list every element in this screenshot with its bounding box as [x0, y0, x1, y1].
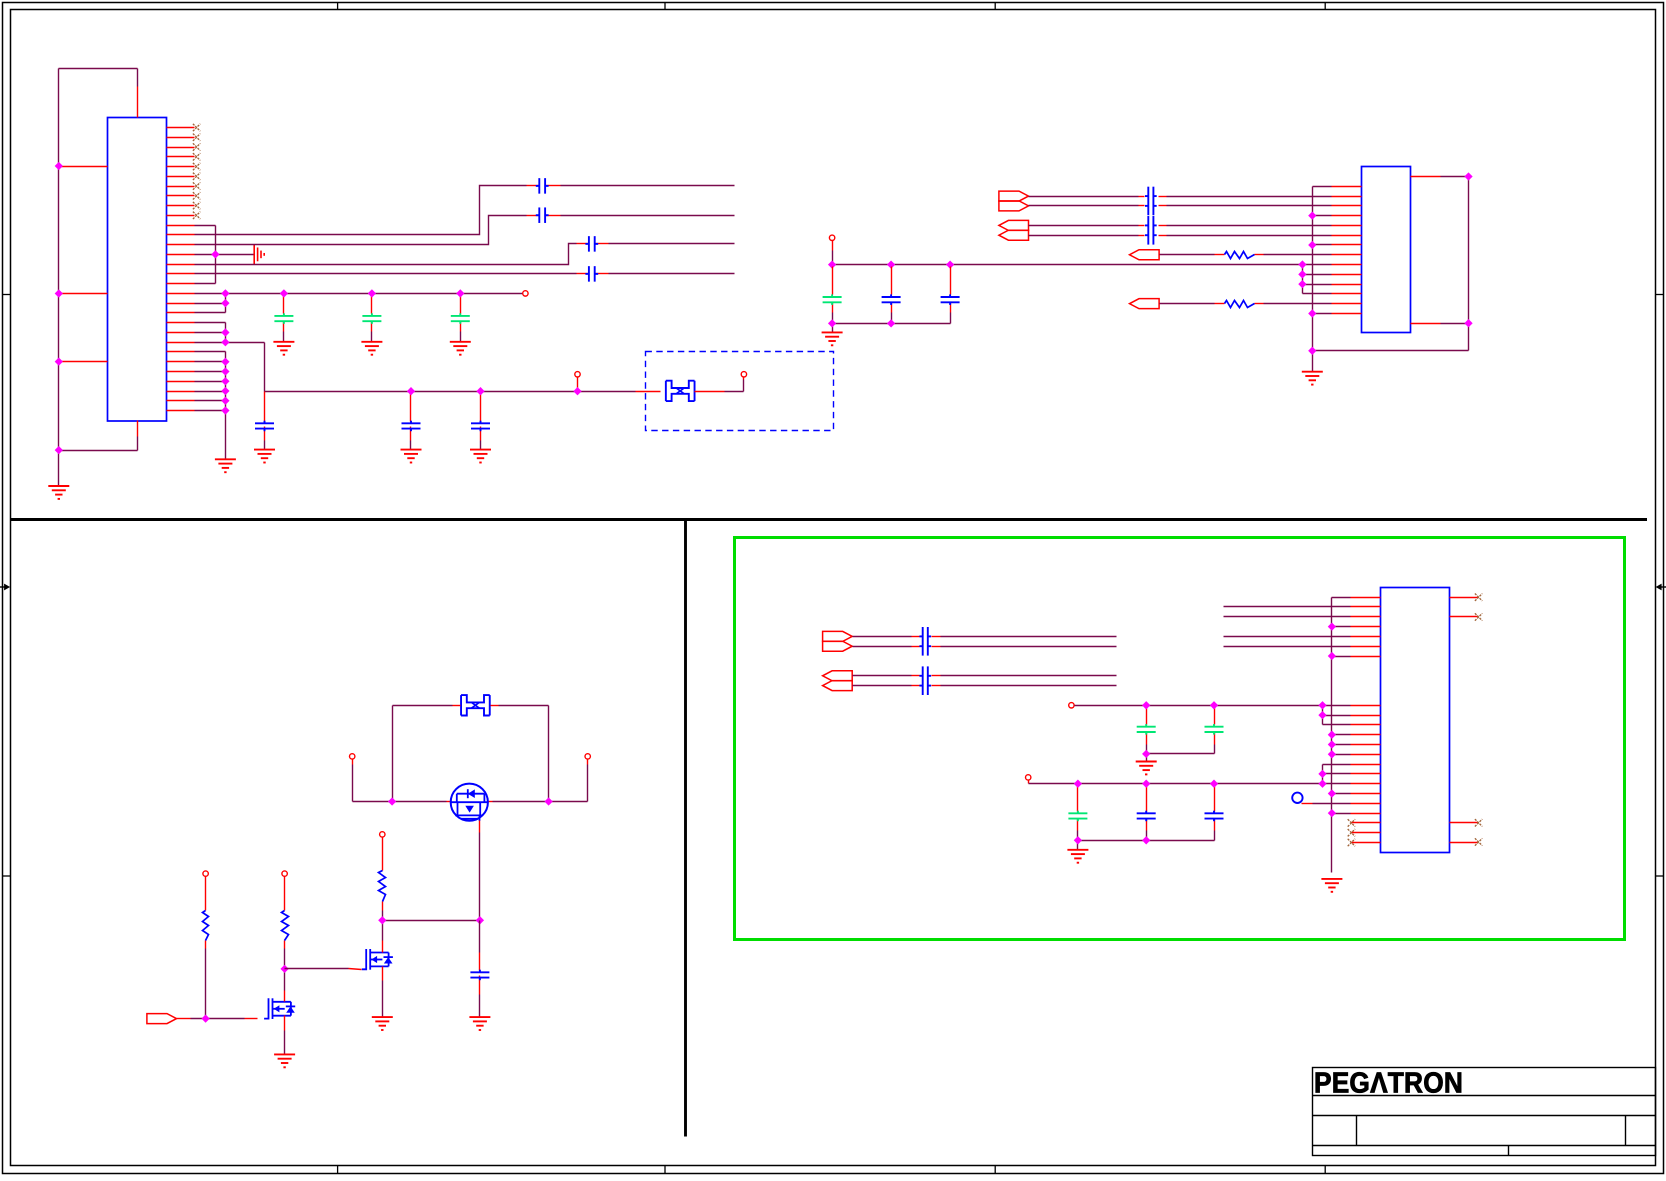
junction net2 tap C6 [476, 387, 484, 395]
capacitor pair C14/C15 [1145, 187, 1157, 216]
ground G-C1 [273, 342, 294, 355]
wire green box row [853, 675, 1117, 677]
wire cap C25 leads [1077, 784, 1079, 841]
option area box [735, 538, 1625, 940]
test point TP4 [829, 235, 834, 240]
junction U2 right bottom [1464, 319, 1472, 327]
ground C18 [469, 1017, 490, 1030]
junction U2 bus join [1308, 347, 1316, 355]
junction tie15 [1318, 770, 1326, 778]
transistor Q3 [264, 998, 295, 1019]
no-connect marker circle [1292, 793, 1302, 803]
test point TP3 [741, 372, 746, 377]
capacitor C6 [471, 421, 490, 432]
wire U3 feed [1224, 606, 1351, 608]
port P-R4 [1130, 250, 1160, 260]
junction loop right [544, 797, 552, 805]
wire U3 right stub [1450, 616, 1479, 618]
no-connect U1 pin 6 [193, 173, 200, 180]
resistor R3 [379, 871, 386, 902]
junction bus D pin28 [221, 387, 229, 395]
wire TP11 bottom rail [1078, 841, 1215, 850]
junction U2 gnd pin4 [1308, 211, 1316, 219]
wire net C (U1 pin 15) [195, 244, 735, 265]
no-connect U3 NC left [1348, 819, 1355, 826]
ground U3 bus [1321, 879, 1342, 892]
wire R2 leads [284, 877, 286, 969]
capacitor C5 [402, 421, 421, 432]
ground bus D [215, 459, 236, 472]
junction tap C24 [1210, 701, 1218, 709]
port PG3 [823, 671, 853, 681]
ground G-C6 [470, 450, 491, 463]
wire Q2 gate net [285, 969, 362, 970]
wire cap C27 leads [1214, 784, 1216, 841]
test point TP8 [282, 871, 287, 876]
no-connect U3 NC right [1475, 838, 1482, 845]
capacitor C4 [255, 421, 274, 432]
junction tie pin11 [1298, 280, 1306, 288]
junction U3 gnd tap [1328, 740, 1336, 748]
wire TP10 bottom rail [1147, 754, 1215, 762]
junction U3 gnd tap [1328, 622, 1336, 630]
wire U3 pins 8-10 tie [1323, 706, 1351, 725]
junction U3 gnd tap [1328, 731, 1336, 739]
junction bus B mid [221, 299, 229, 307]
wire U1 bottom feed [59, 421, 138, 451]
capacitor C10 [585, 266, 598, 282]
junction U3 gnd tap [1328, 789, 1336, 797]
wire Y1 right lead [695, 377, 744, 392]
test point TP6 [585, 754, 590, 759]
no-connect U1 pin 8 [193, 192, 200, 199]
ground Q2 source [372, 1017, 393, 1030]
wire TP2 stem [577, 377, 579, 392]
junction net1 tap C3 [456, 289, 464, 297]
resistor R4 [1225, 252, 1255, 259]
no-connect U3 NC left [1348, 839, 1355, 846]
transistor Q2 [362, 949, 393, 970]
no-connect U1 pin 3 [193, 143, 200, 150]
test point TP5 [350, 754, 355, 759]
wire R3 leads [382, 838, 384, 921]
junction bus B top [221, 289, 229, 297]
junction U3 gnd tap [1328, 652, 1336, 660]
wire U3 feed [1224, 616, 1351, 618]
svg-text:PEGΛTRON: PEGΛTRON [1314, 1067, 1463, 1099]
wire U2 row 2 [1029, 196, 1332, 198]
capacitor C13 [941, 294, 960, 305]
junction bus C mid [221, 328, 229, 336]
wire TP11 rail [1029, 781, 1323, 784]
wire Q1 source drop [479, 821, 481, 921]
junction bus D pin30 [221, 406, 229, 414]
ground TP4 node [822, 332, 843, 345]
junction bus D pin25 [221, 358, 229, 366]
wire left power rail [58, 69, 60, 487]
ground U2 bus [1302, 372, 1323, 385]
wire cap C24 leads [1214, 706, 1216, 754]
wire cap C2 leads [371, 294, 373, 342]
capacitor C24 [1205, 724, 1224, 735]
port PL1 [999, 220, 1029, 230]
junction net1 tap C2 [368, 289, 376, 297]
wire U1 left pin L2 [59, 293, 108, 295]
wire green box row [853, 685, 1117, 687]
capacitor C12 [882, 294, 901, 305]
port PG2 [823, 641, 853, 651]
wire Q3 source [284, 1016, 286, 1055]
junction tap C13 [946, 260, 954, 268]
wire R1 leads [205, 877, 207, 1019]
junction Q3 drain node [280, 965, 288, 973]
chassis ground CG1 [254, 244, 264, 264]
junction tap C27 [1210, 780, 1218, 788]
wire U1 top feed [59, 69, 138, 118]
wire Y2 loop [393, 706, 549, 802]
capacitor C2 [362, 313, 381, 324]
junction U3 gnd tap [1328, 750, 1336, 758]
junction net1 tap C1 [280, 289, 288, 297]
ground G-C5 [401, 450, 422, 463]
junction TP10 gnd node [1142, 750, 1150, 758]
IC U1 [108, 118, 167, 422]
no-connect U3 NC right [1475, 594, 1482, 601]
junction bottom C26 [1142, 836, 1150, 844]
wire cap C12 leads [891, 267, 893, 324]
capacitor C26 [1137, 811, 1156, 822]
wire input net [177, 1018, 258, 1020]
wire cap C11 leads [832, 267, 834, 324]
wire U3 feed [1224, 636, 1351, 638]
wire R5 row [1160, 303, 1332, 305]
wire U1 left pin L3 [59, 361, 108, 363]
wire bus B (U1 pins 18-20) [195, 294, 226, 313]
test point TP9 [380, 832, 385, 837]
wire cap C1 leads [283, 294, 285, 342]
connector U3 [1381, 588, 1450, 853]
wire U2 row 6 [1029, 235, 1332, 237]
wire R4 row [1160, 254, 1332, 256]
capacitor pair C21/C22 [919, 666, 931, 695]
wire cap C13 leads [950, 267, 952, 324]
ground TP10 [1136, 762, 1157, 775]
wire Q3 drain [284, 969, 286, 1002]
ground G-C2 [361, 342, 382, 355]
junction tap C25 [1074, 780, 1082, 788]
wire NC circle to pin 18 [1302, 803, 1351, 805]
wire U3 pins 14-16 tie [1323, 765, 1351, 784]
wire gate node rail [383, 920, 480, 922]
resistor R1 [203, 911, 209, 941]
junction bus D pin27 [221, 377, 229, 385]
junction tie16 [1318, 780, 1326, 788]
no-connect U1 pin 5 [193, 163, 200, 170]
wire net D (U1 pin 16) [195, 273, 735, 275]
wire cap C23 leads [1146, 706, 1148, 754]
capacitor C9 [585, 236, 598, 252]
port PL2 [999, 230, 1029, 240]
wire bus C (U1 pins 21-23) [195, 323, 265, 392]
test point TP2 [575, 372, 580, 377]
junction U3 gnd tap [1328, 809, 1336, 817]
junction loop left [388, 797, 396, 805]
crystal Y2 [461, 695, 490, 715]
wire C18 leads [479, 921, 481, 1018]
wire U3 ground bus [1332, 598, 1351, 873]
wire U3 right stub [1450, 597, 1479, 599]
junction U2 right top [1464, 172, 1472, 180]
capacitor C1 [274, 313, 293, 324]
wire U2 pins 9-12 tie [1303, 265, 1332, 294]
wire green box row [853, 646, 1117, 648]
wire cap C4 leads [264, 392, 266, 450]
resistor R2 [282, 911, 289, 941]
wire green box row [853, 636, 1117, 638]
ground left rail [48, 486, 69, 499]
port P-R5 [1130, 299, 1160, 309]
wire U3 feed [1224, 646, 1351, 648]
wire U2 row 5 [1029, 225, 1332, 227]
crystal Y1 [666, 381, 695, 401]
ground G-C4 [254, 450, 275, 463]
ground Q3 source [274, 1054, 295, 1067]
junction tie8 [1318, 701, 1326, 709]
no-connect U1 pin 1 [193, 124, 200, 131]
transistor Q1 [451, 784, 488, 821]
junction bus C bottom [221, 338, 229, 346]
wire net A (U1 pin 12) [195, 186, 735, 235]
capacitor pair C16/C17 [1145, 216, 1157, 245]
junction R3 node [378, 916, 386, 924]
title block [1313, 1068, 1656, 1156]
capacitor C27 [1205, 811, 1224, 822]
junction U2 gnd pin14 [1308, 309, 1316, 317]
no-connect U1 pin 4 [193, 153, 200, 160]
capacitor C25 [1068, 811, 1087, 822]
junction bus D pin26 [221, 367, 229, 375]
junction input node [201, 1014, 209, 1022]
U3 left pin stubs [1351, 598, 1381, 843]
junction tap C12 [887, 260, 895, 268]
no-connect U1 pin 7 [193, 182, 200, 189]
wire cap C5 leads [410, 392, 412, 450]
wire Q1 drain rail [353, 760, 588, 802]
port PG4 [823, 681, 853, 691]
U2 left pin stubs [1332, 187, 1362, 314]
wire TP4 node rail [833, 241, 1303, 265]
port PR1 [999, 191, 1029, 201]
wire net2 rail [265, 391, 661, 393]
junction left rail L3 [55, 357, 63, 365]
no-connect U1 pin 9 [193, 202, 200, 209]
port P7 [147, 1014, 177, 1024]
junction node corner [828, 260, 836, 268]
capacitor C18 [470, 970, 489, 981]
wire U3 right stub [1450, 842, 1479, 844]
wire TP10 rail [1075, 705, 1323, 707]
junction tie pin10 [1298, 270, 1306, 278]
no-connect U3 NC right [1475, 613, 1482, 620]
wire Q2 drain [382, 921, 384, 953]
junction net2 TP tap [573, 387, 581, 395]
junction tap C23 [1142, 701, 1150, 709]
junction left rail L1 [55, 162, 63, 170]
wire cap C3 leads [460, 294, 462, 342]
junction Q1 node [476, 916, 484, 924]
wire TP4 node bottom rail [833, 324, 951, 333]
ground TP11 [1067, 850, 1088, 863]
wire U2 row 3 [1029, 205, 1332, 207]
port PR2 [999, 201, 1029, 211]
wire cap C26 leads [1146, 784, 1148, 841]
dashed option box [646, 352, 834, 431]
capacitor C23 [1137, 724, 1156, 735]
junction TP11 gnd node [1074, 836, 1082, 844]
no-connect U3 NC right [1475, 819, 1482, 826]
wire U2 ground bus [1313, 187, 1332, 372]
capacitor C8 [536, 207, 549, 223]
junction U2 gnd pin7 [1308, 241, 1316, 249]
junction left rail L2 [55, 289, 63, 297]
junction left rail bottom [55, 446, 63, 454]
junction tie pin9 [1298, 260, 1306, 268]
connector U2 [1362, 167, 1411, 333]
test point TP10 [1069, 703, 1074, 708]
ground G-C3 [450, 342, 471, 355]
no-connect U3 NC left [1348, 829, 1355, 836]
test point TP1 [523, 291, 528, 296]
test point TP11 [1026, 775, 1031, 780]
U1 right pin stubs [167, 128, 195, 411]
junction tie9 [1318, 711, 1326, 719]
no-connect U1 pin 10 [193, 212, 200, 219]
no-connect U1 pin 2 [193, 134, 200, 141]
capacitor C3 [451, 313, 470, 324]
junction bottom left [828, 319, 836, 327]
wire bus D (U1 pins 24-30) [195, 352, 226, 460]
wire U3 right stub [1450, 822, 1479, 824]
capacitor C11 [823, 294, 842, 305]
capacitor pair C19/C20 [919, 627, 931, 656]
wire net B (U1 pin 13) [195, 216, 735, 245]
resistor R5 [1225, 301, 1255, 308]
junction bus A tap [211, 250, 219, 258]
wire U1 left pin L1 [59, 166, 108, 168]
test point TP7 [203, 871, 208, 876]
wire net1 rail [195, 293, 523, 295]
wire U2 right loop [1313, 177, 1469, 351]
port PG1 [823, 631, 853, 641]
wire Q2 source [382, 967, 384, 1018]
capacitor C7 [536, 178, 549, 194]
junction tap C26 [1142, 780, 1150, 788]
junction bus D pin29 [221, 397, 229, 405]
junction bottom C12 [887, 319, 895, 327]
junction net2 tap C5 [407, 387, 415, 395]
wire cap C6 leads [480, 392, 482, 450]
wire bus A (U1 pins 11/14/17) [195, 226, 254, 284]
